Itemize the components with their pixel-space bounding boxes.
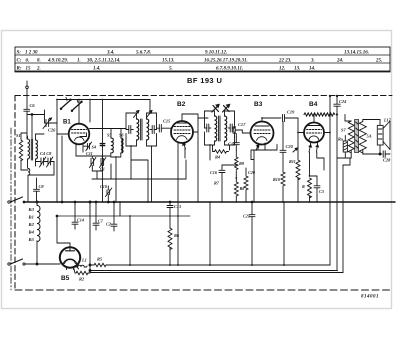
resistor R5: [90, 263, 110, 266]
capacitor C21: [249, 201, 255, 265]
label R10: [273, 177, 281, 182]
B4 electrode wires: [303, 115, 331, 177]
svg-text:814001: 814001: [361, 295, 379, 300]
svg-text:C28: C28: [383, 158, 391, 163]
label R6: [174, 233, 180, 238]
coil 30 small: [28, 169, 30, 176]
heater chain leads: [36, 201, 38, 265]
tube B4: [304, 123, 324, 145]
svg-text:C21: C21: [243, 214, 250, 219]
mains switch upper: [8, 197, 25, 203]
capacitor C7 below bus: [93, 201, 99, 230]
heater labels B3 B1 B2 B4 B5: [28, 207, 35, 242]
svg-text:B5: B5: [61, 275, 70, 282]
label R8: [240, 186, 246, 191]
wire C6 junction down: [31, 114, 33, 138]
tube B3: [251, 122, 274, 151]
trimmer C8a: [28, 157, 54, 175]
diode detector mark: [293, 148, 298, 152]
wire antenna to C26: [27, 114, 45, 116]
capacitor C8 on heater line: [34, 178, 40, 202]
output transformer primary S7: [348, 121, 354, 153]
capacitor C15: [157, 125, 172, 133]
tube B2: [171, 121, 193, 149]
capacitor C19 series: [283, 115, 299, 122]
svg-text:C20: C20: [248, 170, 256, 175]
resistor R8: [234, 178, 238, 202]
label C18: [228, 142, 236, 147]
resistor R16 box: [343, 136, 347, 159]
wire C26 to B1 grid: [56, 123, 58, 202]
svg-text:R6: R6: [174, 233, 180, 238]
svg-text:C2: C2: [106, 222, 111, 227]
second bus: [57, 215, 190, 217]
long vertical to ground 3: [342, 165, 344, 273]
svg-text:1.4.: 1.4.: [93, 66, 101, 71]
capacitor C18: [233, 134, 239, 151]
grid leak vertical: [61, 136, 63, 203]
label C24: [339, 99, 347, 104]
label C4 C8: [40, 151, 52, 156]
svg-text:13.: 13.: [294, 66, 300, 71]
wire coil bottoms: [21, 159, 36, 170]
svg-text:14.: 14.: [309, 66, 315, 71]
svg-text:S1: S1: [16, 133, 21, 138]
IF transformer 1 right coil: [147, 119, 149, 140]
parts table border: [15, 47, 390, 72]
resistor R10: [281, 172, 285, 202]
band switch levers: [61, 101, 81, 111]
table row S text: [17, 50, 370, 55]
label C6: [30, 103, 36, 108]
svg-text:R2: R2: [79, 277, 85, 282]
svg-text:C11: C11: [86, 151, 93, 156]
IF1 tuning arrows: [134, 111, 153, 118]
B+ bus: [24, 201, 395, 203]
capacitor C2 below bus: [111, 201, 117, 231]
chassis dashed border top: [15, 95, 392, 97]
svg-text:B4: B4: [28, 230, 35, 235]
tube B5 rectifier: [60, 243, 80, 270]
svg-text:15.13.: 15.13.: [162, 58, 175, 63]
label C2: [106, 222, 111, 227]
wire B2 screen row: [182, 114, 208, 118]
table row R text: [17, 66, 316, 71]
label S1: [16, 133, 21, 138]
coil core hatching: [31, 139, 32, 160]
IF2 wiring: [205, 111, 235, 160]
svg-text:C17: C17: [238, 122, 246, 127]
label C17: [238, 122, 246, 127]
antenna terminal: [26, 81, 29, 109]
B3 top wire to C19: [262, 117, 281, 119]
label C7: [98, 219, 104, 224]
svg-text:R10: R10: [273, 177, 281, 182]
svg-text:B1: B1: [63, 120, 71, 126]
label R16: [338, 137, 343, 142]
svg-text:8.: 8.: [37, 58, 41, 63]
svg-text:B3: B3: [254, 101, 263, 108]
svg-text:R4: R4: [215, 155, 221, 160]
bus junction dots: [36, 201, 149, 203]
wire S1 top: [21, 133, 27, 140]
AVC vertical wire: [102, 100, 104, 203]
IF transformer 2 left coil: [215, 116, 217, 141]
table row C text: [17, 58, 383, 63]
resistor R11: [296, 118, 303, 202]
label speaker: [383, 118, 392, 123]
vertical wire x130: [129, 216, 131, 265]
B3 electrode wires: [242, 118, 265, 150]
coil bottoms wiring: [111, 153, 121, 202]
IF transformer 2 core: [219, 116, 220, 141]
wire B1 anode to coils: [90, 129, 127, 139]
label C20b: [248, 170, 256, 175]
IF1 wiring: [126, 100, 157, 203]
trimmer C11: [90, 156, 96, 171]
svg-text:4.9.10.29.: 4.9.10.29.: [47, 58, 68, 63]
svg-text:22 23.: 22 23.: [278, 58, 292, 63]
capacitor C6: [24, 109, 30, 139]
resistor R12 cathode: [308, 178, 312, 202]
top wire row: [57, 99, 150, 101]
svg-text:C15: C15: [163, 119, 171, 124]
label C28: [383, 158, 391, 163]
resistor R9 vertical: [235, 150, 238, 178]
svg-text:2.: 2.: [36, 66, 41, 71]
ground rail 1: [110, 264, 330, 266]
vertical wire x148: [131, 160, 148, 202]
label C23: [319, 189, 324, 194]
svg-text:R: R: [302, 184, 305, 189]
IF2 tuning arrows: [212, 105, 230, 113]
svg-text:R9: R9: [239, 161, 245, 166]
node B3 dots: [253, 117, 263, 203]
svg-text:B1: B1: [28, 215, 34, 220]
capacitor C14 below bus: [72, 201, 78, 229]
svg-text:R5: R5: [97, 257, 103, 262]
svg-text:R11: R11: [289, 159, 296, 164]
svg-text:C19: C19: [287, 110, 295, 115]
svg-text:S4: S4: [92, 145, 96, 150]
ground rail 3: [90, 272, 343, 274]
svg-text:B2: B2: [28, 222, 35, 227]
B1 cathode wires: [76, 146, 110, 156]
svg-text:C10: C10: [100, 184, 108, 189]
svg-text:C13: C13: [174, 204, 181, 209]
svg-text:C16: C16: [210, 170, 218, 175]
label R2: [79, 277, 85, 282]
svg-text:12.: 12.: [279, 66, 285, 71]
label C10: [100, 184, 108, 189]
node B4 dots: [313, 114, 331, 134]
label S5 S6: [107, 133, 124, 138]
label C8: [39, 184, 45, 189]
svg-text:3.: 3.: [310, 58, 315, 63]
speaker: [377, 121, 390, 150]
node R11 dots: [282, 175, 318, 203]
wire coil tops: [28, 134, 45, 140]
node coil bottom: [115, 156, 117, 203]
node resistor cluster dots: [221, 177, 247, 203]
capacitor C17 series: [233, 127, 242, 134]
mains dash-dot line: [10, 128, 12, 290]
svg-text:S5: S5: [107, 133, 111, 138]
choke L1: [74, 265, 88, 269]
svg-text:L1: L1: [81, 258, 87, 263]
svg-text:C18: C18: [228, 142, 236, 147]
output transformer secondary: [359, 122, 366, 154]
svg-text:15: 15: [26, 66, 32, 71]
label R9: [239, 161, 245, 166]
label C19: [287, 110, 295, 115]
svg-text:B3: B3: [28, 207, 35, 212]
long mid wire y179: [111, 160, 186, 179]
capacitor beside IF2 right: [228, 124, 234, 132]
tube B1: [57, 124, 89, 146]
node joining L1 R2: [89, 201, 91, 273]
wire top to B1: [57, 100, 90, 124]
chassis dashed border bottom: [15, 289, 392, 291]
svg-text:C26: C26: [48, 128, 56, 133]
coil S6 choke: [121, 138, 123, 153]
node IF1 dots: [130, 112, 151, 147]
node IF2 dots: [209, 144, 211, 146]
capacitor C28: [379, 145, 390, 157]
capacitor C13: [167, 201, 173, 228]
svg-text:B4: B4: [309, 101, 318, 108]
capacitor bead on AVC wire: [100, 144, 104, 146]
svg-text:1 2 30: 1 2 30: [25, 50, 38, 55]
svg-text:S7: S7: [341, 128, 346, 133]
svg-text:13.14.15.16.: 13.14.15.16.: [344, 50, 369, 55]
svg-text:30, 2.5.11.12,14.: 30, 2.5.11.12,14.: [86, 58, 120, 63]
svg-text:S:: S:: [17, 50, 22, 55]
heater chain coil: [37, 206, 40, 242]
mains switch lower: [8, 259, 60, 265]
svg-text:Ra: Ra: [338, 137, 343, 142]
speaker return wire: [343, 158, 350, 165]
long vertical to ground 1: [329, 115, 331, 266]
svg-text:L17: L17: [383, 118, 392, 123]
label C26: [48, 128, 56, 133]
label C13: [174, 204, 181, 209]
capacitor C23: [310, 176, 321, 202]
trimmer C12: [100, 156, 106, 171]
svg-text:6.: 6.: [26, 58, 30, 63]
resistor R4 horizontal: [213, 145, 229, 153]
trimmer C26: [43, 110, 57, 129]
svg-text:C20: C20: [286, 144, 294, 149]
label S7: [341, 128, 346, 133]
label C14: [77, 218, 84, 223]
label C11 C1: [86, 151, 105, 172]
svg-text:9.10.11.12.: 9.10.11.12.: [205, 50, 227, 55]
svg-text:24.: 24.: [336, 58, 343, 63]
transformer core: [355, 120, 359, 153]
label R12: [302, 184, 305, 189]
label R5: [97, 257, 103, 262]
capacitor C10 beside IF1: [150, 126, 156, 134]
trimmer C3 under B1: [84, 142, 92, 151]
svg-text:5.6.7.8.: 5.6.7.8.: [136, 50, 151, 55]
svg-text:C6: C6: [30, 103, 36, 108]
vertical wire x284: [283, 202, 285, 265]
svg-text:C24: C24: [339, 99, 347, 104]
wire coil 30 to switch node: [27, 175, 29, 201]
wire C16 to bus: [221, 173, 223, 203]
label S7A: [367, 134, 372, 139]
svg-text:B2: B2: [177, 101, 186, 108]
label C21: [243, 214, 250, 219]
label C15: [163, 119, 171, 124]
capacitor C20: [280, 122, 286, 173]
svg-text:C4 C8: C4 C8: [40, 151, 52, 156]
wire under small coil: [21, 169, 28, 171]
trimmer C10 above bus: [106, 186, 112, 203]
svg-text:C:: C:: [17, 58, 22, 63]
B3 cathode loop: [251, 145, 277, 203]
coil S1 secondary: [28, 139, 30, 159]
svg-text:1.: 1.: [77, 58, 81, 63]
transformer wires: [337, 115, 382, 159]
resistor R6: [168, 228, 172, 265]
page scan frame (decorative): [2, 31, 392, 309]
IF transformer 1 core: [141, 119, 142, 140]
coil S1 primary zigzag: [19, 140, 22, 161]
svg-text:5.: 5.: [169, 66, 173, 71]
svg-text:5A: 5A: [367, 134, 372, 139]
coil S5: [111, 138, 114, 153]
vertical wire x210: [209, 202, 211, 265]
capacitor C16: [219, 165, 236, 173]
node wavy line dots: [329, 95, 338, 116]
IF transformer 1 left coil: [137, 119, 139, 140]
resistor R6b: [244, 168, 248, 202]
band switch contacts: [60, 98, 82, 112]
B2 electrode wires: [171, 114, 198, 265]
chassis dashed border left: [14, 96, 16, 291]
label C20: [286, 144, 294, 149]
wire B5 anode up-left: [56, 215, 70, 243]
node AVC dots: [102, 99, 104, 203]
IF transformer 2 right coil: [225, 116, 227, 141]
label R4: [215, 155, 221, 160]
node top dots: [56, 99, 91, 101]
svg-text:R:: R:: [17, 66, 22, 71]
wire under trimmers: [92, 171, 111, 179]
capacitor C9 beside IF1: [126, 126, 133, 134]
node B2 dots: [177, 201, 199, 266]
svg-text:25.: 25.: [375, 58, 382, 63]
capacitor beside IF2 left: [205, 124, 211, 132]
heater wavy line: [304, 113, 335, 116]
svg-text:C8: C8: [39, 184, 45, 189]
B4 cathode arrows: [309, 145, 319, 152]
capacitor C24: [334, 96, 340, 271]
label R11: [289, 159, 296, 164]
label R7: [214, 181, 220, 186]
vertical wire x120: [119, 202, 121, 216]
svg-text:C3: C3: [319, 189, 324, 194]
svg-text:B5: B5: [28, 237, 35, 242]
svg-text:6.7.8.9.10.11.: 6.7.8.9.10.11.: [216, 66, 243, 71]
label L1: [81, 258, 87, 263]
svg-text:3.4.: 3.4.: [106, 50, 115, 55]
resistor R2: [74, 267, 91, 275]
label C16: [210, 170, 218, 175]
svg-text:16.25.26.17.19.20.31.: 16.25.26.17.19.20.31.: [204, 58, 248, 63]
ground rail 2: [90, 270, 338, 272]
svg-text:BF 193 U: BF 193 U: [187, 76, 222, 85]
svg-text:C14: C14: [77, 218, 84, 223]
heater line drop left: [329, 96, 331, 115]
coil S1 tuned winding: [36, 140, 38, 159]
label S4: [92, 145, 96, 150]
trimmer C4: [36, 157, 46, 167]
ground junction dots: [129, 201, 285, 266]
